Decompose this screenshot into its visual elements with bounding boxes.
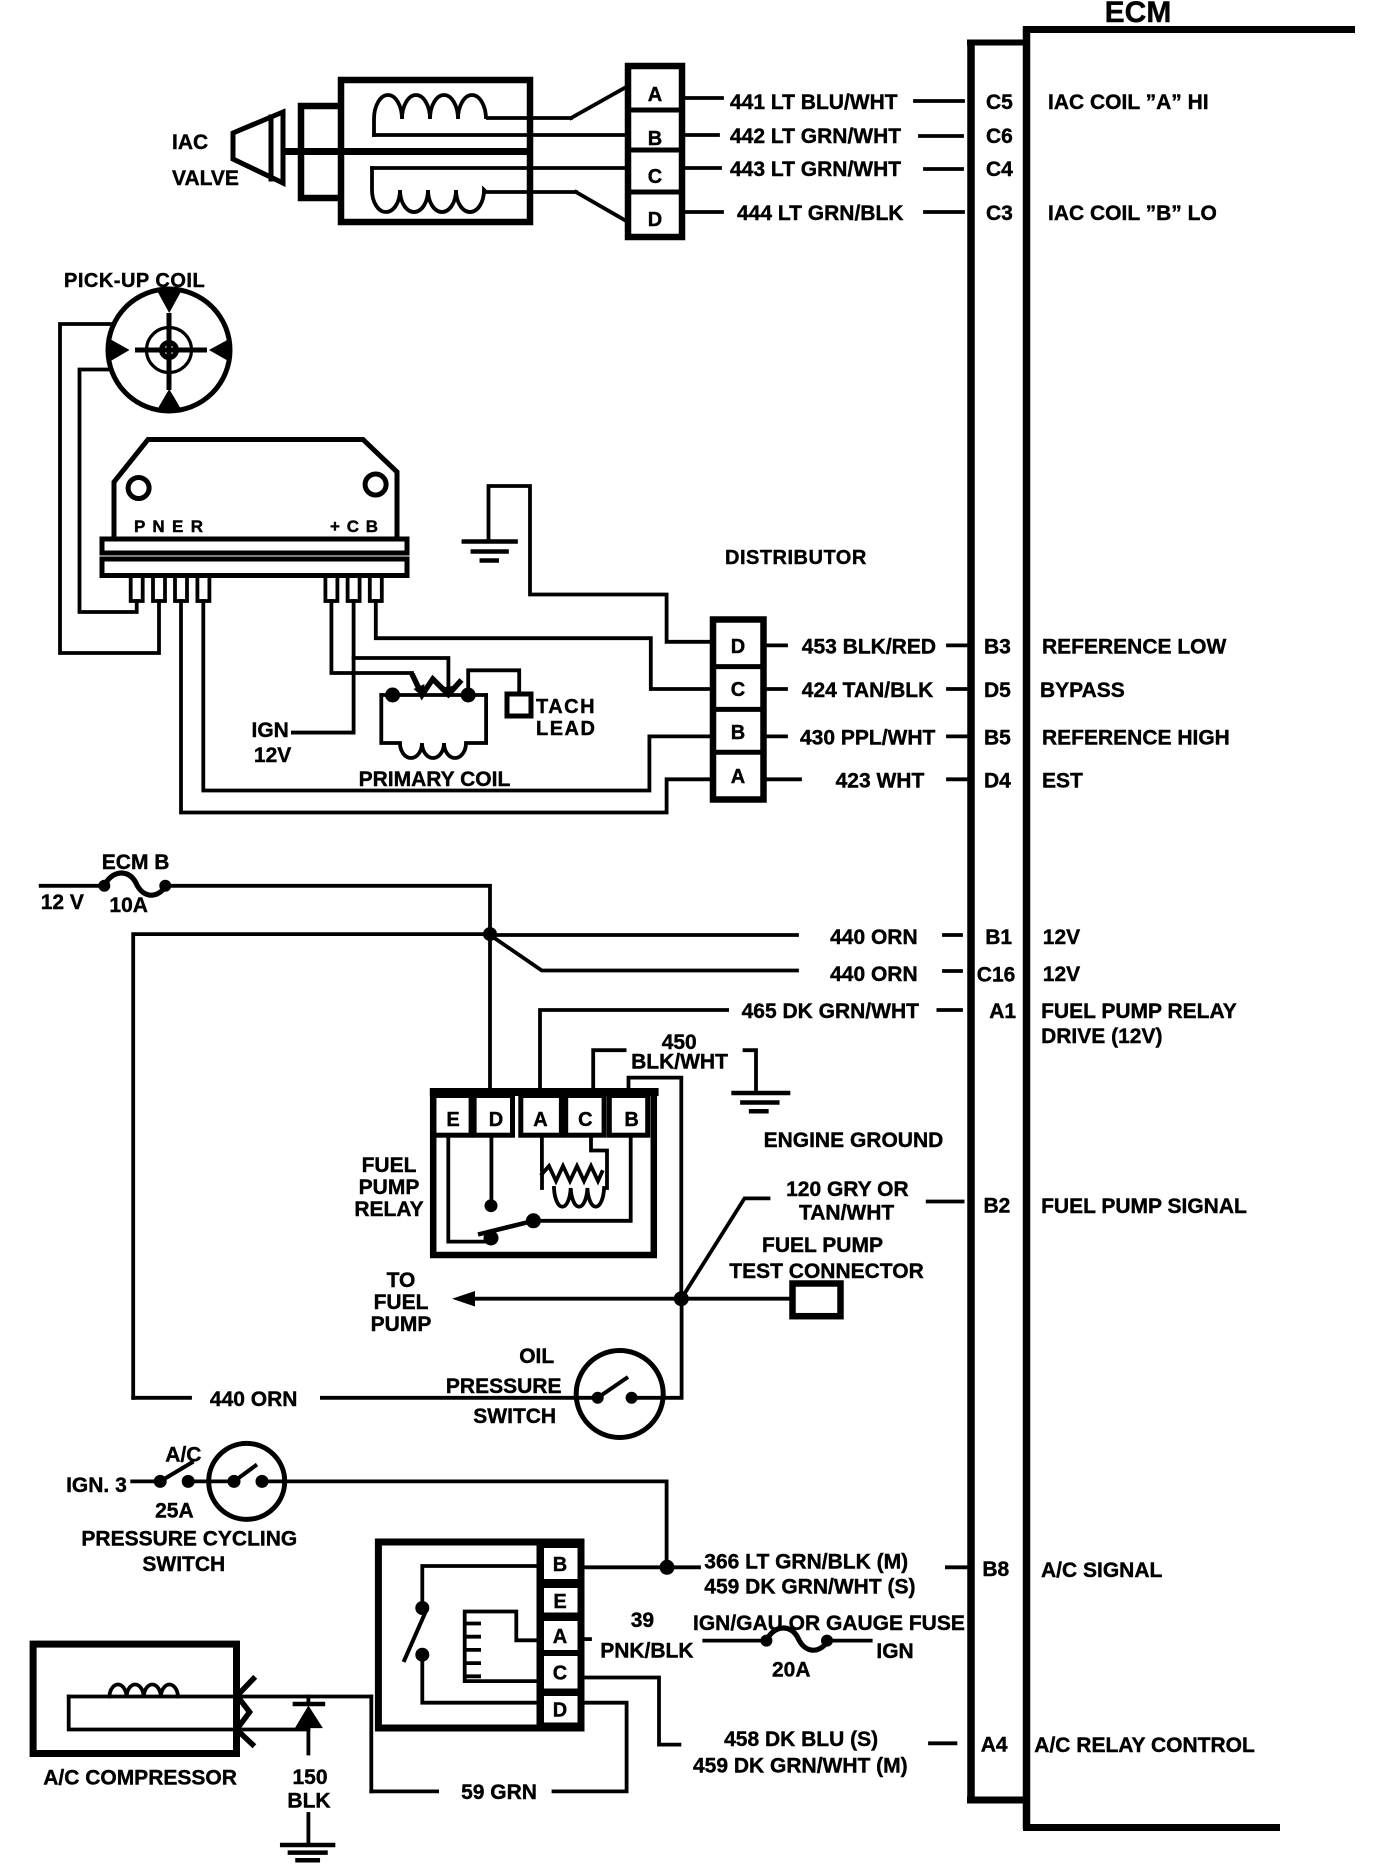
- svg-text:D: D: [648, 209, 662, 231]
- svg-text:B: B: [624, 1109, 638, 1131]
- svg-text:12V: 12V: [1043, 926, 1080, 949]
- svg-text:DRIVE (12V): DRIVE (12V): [1041, 1025, 1162, 1048]
- svg-text:A1: A1: [989, 1000, 1016, 1023]
- svg-text:440 ORN: 440 ORN: [830, 963, 918, 986]
- svg-text:PUMP: PUMP: [359, 1176, 420, 1199]
- svg-text:10A: 10A: [109, 894, 148, 917]
- svg-text:C3: C3: [986, 202, 1013, 225]
- svg-text:E: E: [553, 1591, 566, 1613]
- svg-text:441 LT BLU/WHT: 441 LT BLU/WHT: [730, 91, 898, 114]
- svg-text:TEST CONNECTOR: TEST CONNECTOR: [729, 1260, 923, 1283]
- svg-text:IAC COIL ”A” HI: IAC COIL ”A” HI: [1048, 91, 1209, 114]
- svg-text:P N E R: P N E R: [134, 517, 203, 536]
- svg-text:IGN/GAU OR GAUGE FUSE: IGN/GAU OR GAUGE FUSE: [693, 1612, 965, 1635]
- svg-text:FUEL: FUEL: [362, 1154, 417, 1177]
- svg-text:IGN. 3: IGN. 3: [66, 1474, 127, 1497]
- svg-text:12V: 12V: [1043, 963, 1080, 986]
- svg-text:B1: B1: [985, 926, 1012, 949]
- svg-text:FUEL PUMP RELAY: FUEL PUMP RELAY: [1041, 1000, 1237, 1023]
- svg-text:A/C COMPRESSOR: A/C COMPRESSOR: [43, 1767, 237, 1790]
- svg-text:A: A: [533, 1109, 547, 1131]
- svg-text:A/C RELAY CONTROL: A/C RELAY CONTROL: [1034, 1734, 1255, 1757]
- svg-text:TAN/WHT: TAN/WHT: [799, 1202, 894, 1225]
- svg-text:ECM B: ECM B: [102, 851, 170, 874]
- svg-text:39: 39: [631, 1609, 654, 1632]
- svg-text:REFERENCE HIGH: REFERENCE HIGH: [1042, 727, 1230, 750]
- svg-text:D4: D4: [984, 769, 1011, 792]
- svg-text:59 GRN: 59 GRN: [461, 1781, 537, 1804]
- svg-text:VALVE: VALVE: [172, 167, 239, 190]
- svg-text:A: A: [648, 84, 662, 106]
- svg-text:FUEL PUMP: FUEL PUMP: [762, 1234, 883, 1257]
- svg-text:443 LT GRN/WHT: 443 LT GRN/WHT: [730, 158, 901, 181]
- svg-text:20A: 20A: [772, 1659, 811, 1682]
- svg-text:PRIMARY COIL: PRIMARY COIL: [359, 768, 511, 791]
- svg-text:D5: D5: [984, 679, 1011, 702]
- svg-text:458 DK BLU (S): 458 DK BLU (S): [724, 1728, 878, 1751]
- svg-text:E: E: [446, 1109, 459, 1131]
- svg-text:465 DK GRN/WHT: 465 DK GRN/WHT: [742, 1000, 920, 1023]
- svg-text:C6: C6: [986, 125, 1013, 148]
- svg-text:C16: C16: [977, 964, 1016, 987]
- svg-text:D: D: [489, 1109, 503, 1131]
- svg-text:A4: A4: [981, 1734, 1008, 1757]
- svg-text:TACH: TACH: [536, 696, 596, 718]
- svg-text:12 V: 12 V: [41, 891, 84, 914]
- svg-text:BYPASS: BYPASS: [1040, 679, 1125, 702]
- svg-text:BLK/WHT: BLK/WHT: [631, 1051, 728, 1074]
- svg-text:B: B: [553, 1554, 567, 1576]
- svg-text:459 DK GRN/WHT (M): 459 DK GRN/WHT (M): [693, 1754, 908, 1777]
- svg-text:25A: 25A: [155, 1500, 194, 1523]
- svg-text:LEAD: LEAD: [536, 718, 596, 740]
- svg-text:ENGINE GROUND: ENGINE GROUND: [764, 1129, 944, 1152]
- svg-text:440 ORN: 440 ORN: [210, 1388, 298, 1411]
- svg-text:DISTRIBUTOR: DISTRIBUTOR: [725, 547, 867, 569]
- svg-text:423 WHT: 423 WHT: [836, 769, 925, 792]
- svg-text:FUEL PUMP SIGNAL: FUEL PUMP SIGNAL: [1041, 1195, 1247, 1218]
- svg-text:C: C: [731, 679, 745, 701]
- svg-text:A/C SIGNAL: A/C SIGNAL: [1041, 1559, 1163, 1582]
- svg-text:SWITCH: SWITCH: [473, 1405, 556, 1428]
- svg-text:B8: B8: [982, 1558, 1009, 1581]
- svg-text:BLK: BLK: [287, 1789, 330, 1812]
- svg-text:B: B: [731, 722, 745, 744]
- svg-text:PRESSURE: PRESSURE: [446, 1375, 562, 1398]
- svg-text:453 BLK/RED: 453 BLK/RED: [802, 636, 936, 659]
- svg-text:A: A: [553, 1626, 567, 1648]
- svg-text:459 DK GRN/WHT (S): 459 DK GRN/WHT (S): [704, 1576, 915, 1599]
- svg-text:TO: TO: [387, 1269, 416, 1292]
- svg-text:ECM: ECM: [1105, 0, 1172, 29]
- svg-text:PRESSURE CYCLING: PRESSURE CYCLING: [81, 1528, 297, 1551]
- svg-text:C: C: [578, 1109, 592, 1131]
- svg-text:C4: C4: [986, 158, 1013, 181]
- svg-text:FUEL: FUEL: [374, 1291, 429, 1314]
- svg-text:B5: B5: [984, 727, 1011, 750]
- svg-text:IAC COIL ”B” LO: IAC COIL ”B” LO: [1048, 202, 1217, 225]
- svg-text:REFERENCE LOW: REFERENCE LOW: [1042, 636, 1227, 659]
- svg-text:D: D: [731, 636, 745, 658]
- svg-text:C5: C5: [986, 91, 1013, 114]
- svg-text:A/C: A/C: [165, 1444, 201, 1467]
- svg-text:A: A: [731, 766, 745, 788]
- svg-text:IGN: IGN: [252, 719, 289, 742]
- svg-text:IAC: IAC: [172, 131, 208, 154]
- svg-text:EST: EST: [1042, 769, 1083, 792]
- svg-text:12V: 12V: [254, 744, 291, 767]
- svg-text:B3: B3: [984, 636, 1011, 659]
- svg-text:424 TAN/BLK: 424 TAN/BLK: [802, 679, 933, 702]
- svg-text:RELAY: RELAY: [354, 1198, 423, 1221]
- svg-text:OIL: OIL: [519, 1345, 554, 1368]
- svg-text:150: 150: [292, 1766, 327, 1789]
- svg-text:B2: B2: [984, 1195, 1011, 1218]
- svg-text:D: D: [553, 1700, 567, 1722]
- svg-text:366 LT GRN/BLK (M): 366 LT GRN/BLK (M): [704, 1551, 908, 1574]
- svg-text:444 LT GRN/BLK: 444 LT GRN/BLK: [737, 202, 903, 225]
- svg-text:IGN: IGN: [876, 1640, 913, 1663]
- svg-text:C: C: [553, 1663, 567, 1685]
- svg-text:SWITCH: SWITCH: [142, 1553, 225, 1576]
- svg-text:442 LT GRN/WHT: 442 LT GRN/WHT: [730, 125, 901, 148]
- svg-text:440 ORN: 440 ORN: [830, 926, 918, 949]
- svg-text:PNK/BLK: PNK/BLK: [600, 1640, 693, 1663]
- svg-text:+ C B: + C B: [330, 517, 378, 536]
- svg-text:C: C: [648, 166, 662, 188]
- svg-text:120 GRY OR: 120 GRY OR: [786, 1178, 909, 1201]
- svg-text:B: B: [648, 128, 662, 150]
- svg-text:430 PPL/WHT: 430 PPL/WHT: [800, 727, 936, 750]
- svg-text:PUMP: PUMP: [371, 1313, 432, 1336]
